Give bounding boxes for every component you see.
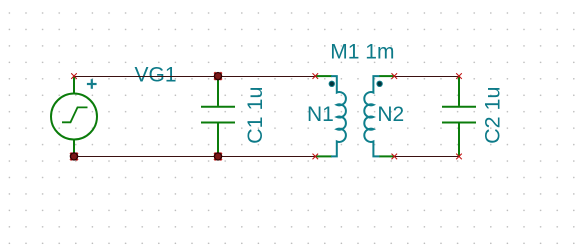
pin cross at C2 bottom — [456, 154, 462, 160]
junction node at C1 top — [214, 72, 221, 79]
pin cross at transformer N2 top — [392, 73, 398, 79]
capacitor C1 — [201, 76, 235, 156]
wire top-left: source to C1 to transformer — [74, 76, 315, 78]
transformer M1 secondary winding N2 — [364, 76, 394, 156]
wire bottom-right: transformer to C2 — [394, 156, 459, 158]
pin cross at source top — [71, 73, 77, 79]
svg-text:VG1: VG1 — [135, 64, 177, 87]
polarity dot of N1 — [329, 81, 334, 86]
junction node at C1 bottom — [214, 153, 221, 160]
transformer M1 primary winding N1 — [316, 76, 346, 156]
svg-text:C2 1u: C2 1u — [480, 87, 504, 144]
polarity dot of N2 — [377, 81, 382, 86]
svg-text:M1 1m: M1 1m — [330, 40, 394, 63]
voltage source VG1 — [51, 76, 97, 156]
capacitor C2 — [442, 76, 476, 156]
junction node at source bottom — [70, 153, 77, 160]
svg-text:C1 1u: C1 1u — [243, 87, 267, 144]
plus polarity mark of VG1 — [87, 79, 97, 89]
wire top-right: transformer to C2 — [394, 76, 459, 78]
pin cross at transformer N1 bottom — [313, 154, 319, 160]
svg-text:N1: N1 — [307, 103, 334, 126]
pin cross at C2 top — [456, 73, 462, 79]
svg-text:N2: N2 — [377, 103, 404, 126]
pin cross at transformer N2 bottom — [392, 154, 398, 160]
wire bottom-left: source to C1 to transformer — [74, 156, 315, 158]
pin cross at transformer N1 top — [313, 73, 319, 79]
